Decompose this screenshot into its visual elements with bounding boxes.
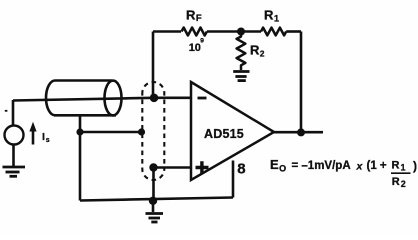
wire feedback left vertical (152, 32, 155, 97)
wire R1 to right corner (286, 30, 301, 33)
wire noninverting input (154, 166, 191, 169)
svg-text:R2: R2 (250, 43, 265, 59)
wire node to ground (152, 201, 155, 212)
svg-text:R1: R1 (392, 160, 406, 173)
svg-text:AD515: AD515 (204, 127, 244, 141)
node junction RF/R1/R2 (237, 28, 245, 36)
current source Is (12, 100, 15, 126)
shielded cable cylinder (46, 81, 122, 116)
node noninverting input (149, 163, 157, 171)
svg-text:EO: EO (270, 157, 286, 174)
ground under current source (3, 167, 26, 176)
resistor RF (182, 28, 207, 36)
wire right vertical to output (300, 32, 303, 133)
wire RF to node (207, 30, 241, 33)
wire shield to guard (80, 131, 142, 134)
node guard left (138, 128, 145, 135)
svg-text:10: 10 (189, 42, 201, 54)
wire output (274, 131, 323, 134)
minus sign (198, 97, 207, 100)
svg-text:): ) (413, 159, 417, 173)
wire noninverting to ground (152, 168, 155, 201)
node shield left (76, 128, 83, 135)
wire bottom guard rail (80, 198, 233, 201)
resistor R2 (237, 32, 246, 71)
plus sign (196, 161, 209, 173)
svg-text:R1: R1 (264, 8, 280, 25)
ground under R2 (233, 72, 249, 81)
svg-text:R2: R2 (392, 176, 406, 189)
arrow Is (32, 130, 35, 145)
wire node to R1 (241, 30, 261, 33)
wire shield down left vertical (79, 132, 82, 201)
svg-text:x: x (356, 160, 364, 172)
ground bottom center (146, 214, 164, 223)
svg-text:Is: Is (42, 131, 50, 144)
svg-text:RF: RF (186, 8, 202, 25)
node inverting input (150, 94, 159, 103)
wire pin8 vertical (232, 161, 235, 198)
wire input conductor (13, 98, 190, 101)
wire current source to ground (12, 145, 15, 167)
node output (297, 128, 305, 136)
wire top feedback rail left segment (153, 30, 181, 33)
svg-text:8: 8 (237, 161, 245, 178)
svg-text:9: 9 (200, 38, 204, 45)
wire shield tap down (79, 115, 82, 132)
op-amp U1 AD515 (191, 82, 274, 180)
stray mark (5, 110, 8, 112)
svg-text:(1 +: (1 + (367, 160, 387, 172)
resistor R1 (261, 28, 286, 36)
equation EO (270, 157, 417, 189)
guard ring dashed (142, 82, 164, 180)
node ground junction (149, 197, 157, 205)
svg-text:= –1mV/pA: = –1mV/pA (292, 160, 351, 172)
